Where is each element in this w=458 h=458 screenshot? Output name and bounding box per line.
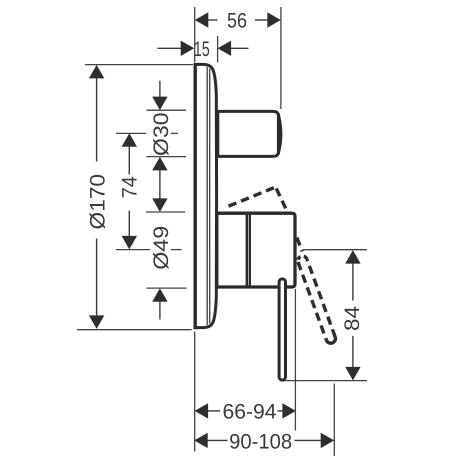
svg-text:84: 84 [341,306,364,331]
svg-text:56: 56 [227,10,247,33]
svg-text:Ø30: Ø30 [150,112,173,156]
svg-text:90-108: 90-108 [229,430,292,453]
svg-text:66-94: 66-94 [223,400,277,423]
svg-text:Ø170: Ø170 [86,174,109,230]
svg-text:Ø49: Ø49 [150,226,173,270]
svg-text:74: 74 [118,176,141,198]
svg-text:15: 15 [194,38,210,61]
